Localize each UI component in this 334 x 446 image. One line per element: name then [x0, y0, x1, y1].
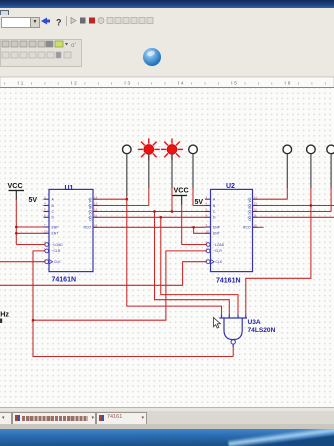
- strip above tabs: [0, 407, 334, 412]
- wire: clock line to U2 CLK: [0, 262, 206, 286]
- title bar: [0, 0, 334, 9]
- wire: U1 QC row to U2 C, lamp X3, NAND input 2: [99, 211, 206, 213]
- svg-text:U2: U2: [226, 183, 235, 190]
- wire: VCC1 to U1 ENP/ENT/~LOAD: [15, 200, 17, 245]
- svg-text:QB: QB: [247, 204, 251, 210]
- lamp lead X4: [192, 154, 194, 188]
- wire: NAND output to reset net: [232, 347, 234, 357]
- wire: U1 RCO to U2 ENP and ENT: [99, 226, 206, 228]
- indicator lamp X3 (lit): [161, 138, 183, 160]
- play button: [71, 18, 76, 24]
- junction reset net: [32, 319, 35, 322]
- svg-text:RCO: RCO: [84, 226, 92, 230]
- wire: reset net from NAND output to U1 ~CLR: [33, 251, 233, 357]
- svg-text:1: 1: [21, 81, 24, 86]
- svg-text:15: 15: [94, 224, 98, 228]
- lamp lead X7: [330, 154, 332, 188]
- svg-text:14: 14: [94, 195, 98, 199]
- schematic canvas with dot grid: [0, 88, 334, 407]
- junction QC-lamp3: [171, 210, 174, 213]
- ruler ticks and numbers: [5, 81, 326, 84]
- menu strip: [0, 8, 334, 15]
- IC U1 74161N body: [49, 189, 93, 271]
- junction QB2-lamp6: [310, 204, 313, 207]
- svg-text:A: A: [52, 198, 55, 202]
- mid panel icon row 1: [2, 41, 53, 47]
- svg-text:RCO: RCO: [243, 226, 251, 230]
- svg-text:6: 6: [288, 81, 291, 86]
- svg-text:ENT: ENT: [213, 232, 220, 236]
- svg-text:74LS20N: 74LS20N: [248, 327, 276, 334]
- svg-text:~CLR: ~CLR: [213, 249, 222, 253]
- svg-text:ENT: ENT: [52, 232, 59, 236]
- mid icon panel: [0, 39, 82, 67]
- svg-text:~LOAD: ~LOAD: [52, 243, 64, 247]
- svg-text:D: D: [52, 216, 55, 220]
- wire: U2 ~CLR branch of reset net: [33, 251, 206, 320]
- svg-text:3: 3: [128, 81, 131, 86]
- svg-text:11: 11: [94, 214, 97, 218]
- NAND gate U3A 74LS20N body: [219, 314, 247, 347]
- mid panel icon row 2: [2, 52, 71, 58]
- svg-text:5: 5: [234, 81, 237, 86]
- indicator lamp X5 (off): [283, 145, 292, 154]
- wire: U1 QB to lamp X2: [99, 205, 149, 207]
- svg-text:VCC: VCC: [174, 186, 189, 195]
- svg-text:?: ?: [56, 18, 62, 28]
- lamp lead X1: [126, 154, 128, 196]
- junction VCC1-ENP: [15, 226, 18, 229]
- lamp lead X5: [286, 154, 288, 188]
- svg-text:QD: QD: [88, 216, 92, 222]
- svg-text:14: 14: [254, 195, 258, 199]
- svg-text:~CLR: ~CLR: [52, 249, 61, 253]
- wire: U2 QD to right edge: [258, 216, 334, 218]
- svg-text:QC: QC: [247, 210, 251, 216]
- svg-text:QB: QB: [88, 204, 92, 210]
- junction QA-lamp1: [125, 198, 128, 201]
- svg-text:σ′: σ′: [71, 43, 77, 49]
- svg-text:VCC: VCC: [8, 181, 23, 190]
- junction QD-NAND: [159, 216, 162, 219]
- wire: U2 QB row to right edge, lamp X6 and NAND input 4: [258, 205, 334, 207]
- indicator lamp X2 (lit): [138, 138, 160, 160]
- wire: U1 QA to lamp X1 and NAND input 1: [99, 198, 127, 200]
- wire: U2 RCO stub: [258, 226, 264, 228]
- svg-text:B: B: [52, 204, 55, 208]
- svg-text:12: 12: [254, 208, 258, 212]
- svg-text:4: 4: [181, 81, 184, 86]
- wire: U2 QA to lamp X5: [258, 198, 287, 200]
- svg-text:CLK: CLK: [54, 260, 61, 264]
- svg-text:ENP: ENP: [52, 225, 60, 229]
- svg-text:C: C: [52, 210, 55, 214]
- indicator lamp X4 (off): [189, 145, 198, 154]
- svg-text:74161N: 74161N: [216, 277, 241, 284]
- svg-text:D: D: [213, 216, 216, 220]
- svg-text:74161N: 74161N: [52, 277, 77, 284]
- wire: U1 QD row to U2 D and NAND input 3: [99, 216, 206, 218]
- IC U2 74161N body: [211, 189, 253, 271]
- svg-text:~LOAD: ~LOAD: [213, 243, 225, 247]
- junction QC-NAND: [153, 210, 156, 213]
- pause button: [80, 18, 86, 24]
- tabs bar: [0, 411, 334, 425]
- svg-text:5V: 5V: [195, 199, 204, 206]
- svg-text:15: 15: [254, 224, 258, 228]
- toolbar row 1: [0, 15, 334, 28]
- svg-text:QA: QA: [88, 198, 92, 204]
- svg-text:2: 2: [74, 81, 77, 86]
- junction RCO-ENT: [192, 226, 195, 229]
- wire: clock line into U1 CLK: [0, 261, 45, 263]
- svg-text:A: A: [213, 198, 216, 202]
- svg-text:U1: U1: [65, 185, 74, 192]
- indicator lamp X1 (off): [123, 145, 132, 154]
- grayed sim buttons: [98, 18, 104, 24]
- svg-text:U3A: U3A: [248, 319, 261, 326]
- svg-text:QC: QC: [88, 210, 92, 216]
- svg-text:Hz: Hz: [0, 310, 9, 319]
- svg-text:13: 13: [94, 202, 98, 206]
- junction VCC1-ENT: [15, 232, 18, 235]
- lamp lead X3: [171, 154, 173, 188]
- svg-text:13: 13: [254, 202, 258, 206]
- mouse cursor: [214, 318, 221, 329]
- indicator lamp X7 (off): [327, 145, 334, 154]
- wire: U2 QC to lamp X7: [258, 211, 331, 213]
- blue globe avatar: [143, 48, 161, 66]
- wire: VCC2 to U2 ~LOAD: [182, 205, 207, 245]
- lamp lead X6: [310, 154, 312, 188]
- stop button (red): [89, 18, 95, 24]
- indicator lamp X6 (off): [307, 145, 316, 154]
- wire: lamp X4 to U2 B: [193, 205, 205, 207]
- blue arrow icon: [41, 18, 50, 25]
- svg-text:10: 10: [44, 230, 48, 234]
- lamp lead X2: [148, 154, 150, 188]
- svg-text:ENP: ENP: [213, 225, 221, 229]
- svg-text:CLK: CLK: [216, 260, 223, 264]
- svg-text:12: 12: [94, 208, 98, 212]
- svg-text:C: C: [213, 210, 216, 214]
- svg-text:5V: 5V: [29, 197, 38, 204]
- svg-text:11: 11: [254, 214, 257, 218]
- bottom blue video bar: [0, 429, 334, 446]
- svg-text:QA: QA: [247, 198, 251, 204]
- svg-text:10: 10: [206, 230, 210, 234]
- svg-text:QD: QD: [247, 216, 251, 222]
- svg-text:B: B: [213, 204, 216, 208]
